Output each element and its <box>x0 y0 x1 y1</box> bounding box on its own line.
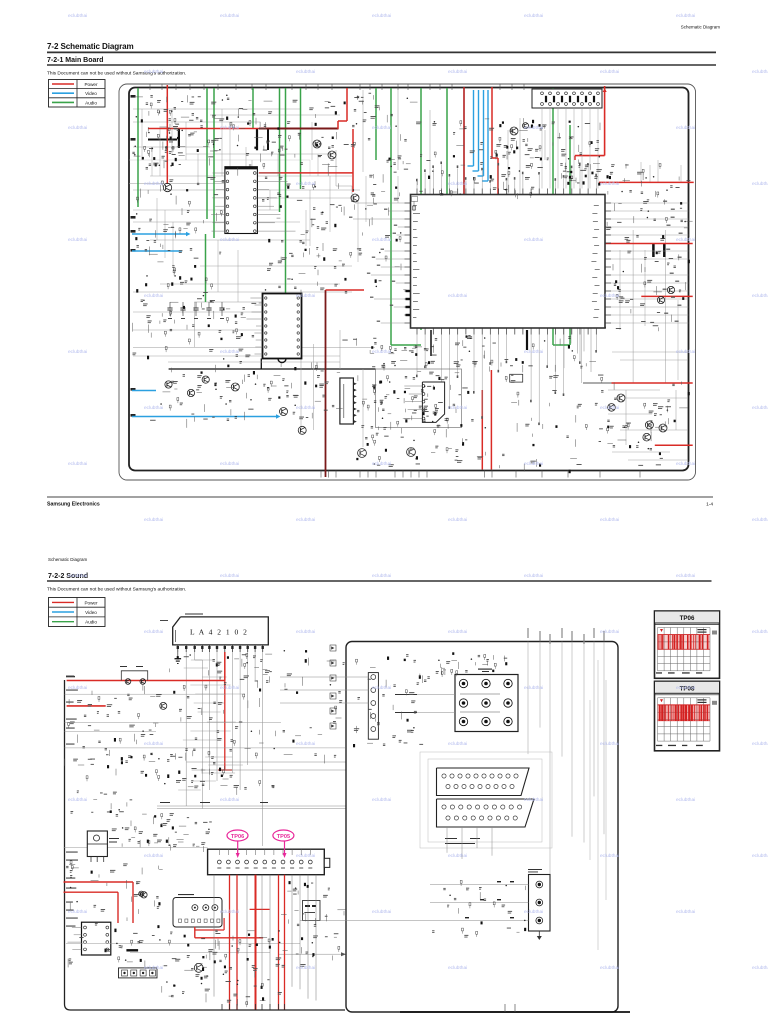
svg-text:eclubthai: eclubthai <box>372 237 391 243</box>
wire into CN01 from left <box>64 846 208 848</box>
svg-text:eclubthai: eclubthai <box>296 181 315 187</box>
audio wire green V11 <box>420 88 422 330</box>
svg-text:Video: Video <box>85 91 97 96</box>
transistor Q107 <box>165 381 172 388</box>
power bus red horizontal <box>148 128 260 130</box>
transistor Q101 <box>163 183 171 191</box>
transistor Q109 <box>202 376 209 383</box>
svg-text:eclubthai: eclubthai <box>600 741 619 747</box>
svg-text:eclubthai: eclubthai <box>220 237 239 243</box>
svg-text:Samsung Electronics: Samsung Electronics <box>47 502 100 508</box>
svg-text:eclubthai: eclubthai <box>752 741 768 747</box>
border pin ticks top edge <box>150 85 524 91</box>
svg-text:eclubthai: eclubthai <box>68 797 87 803</box>
svg-text:eclubthai: eclubthai <box>144 965 163 971</box>
routing loop rect inner <box>428 759 542 842</box>
cluster below LA42102 <box>170 654 273 708</box>
3x3 transformer T601 grid <box>455 675 518 732</box>
IC IC401 vertical DIP <box>263 294 302 359</box>
cluster right of LA wires <box>283 650 345 763</box>
component cluster left lower <box>133 299 263 372</box>
thick black stub V x431 below IC <box>430 330 432 356</box>
svg-text:eclubthai: eclubthai <box>676 461 695 467</box>
gray wire rows left half <box>133 109 360 362</box>
svg-text:eclubthai: eclubthai <box>524 349 543 355</box>
component cluster top-left resistors capacitors <box>132 95 208 169</box>
gray wire rows right half <box>608 160 688 460</box>
svg-text:eclubthai: eclubthai <box>600 853 619 859</box>
TP05 arrow <box>284 841 286 854</box>
wires from left into strip <box>280 676 368 678</box>
routing loop rect outer <box>420 752 552 848</box>
svg-text:eclubthai: eclubthai <box>144 405 163 411</box>
D-sub connector CN302 <box>437 799 535 827</box>
gray wire V x194 <box>193 302 195 347</box>
transistor Q111 <box>280 408 288 416</box>
audio amp block outline <box>376 369 462 428</box>
svg-text:eclubthai: eclubthai <box>752 853 768 859</box>
relay RY01 box <box>173 898 222 928</box>
LA42102 pin wires down <box>185 652 187 806</box>
component marks on jack wires <box>497 881 501 882</box>
svg-text:eclubthai: eclubthai <box>676 685 695 691</box>
left border wire y694 <box>65 693 226 695</box>
component cluster amp block area <box>356 372 469 467</box>
svg-text:7-2 Schematic Diagram: 7-2 Schematic Diagram <box>47 42 134 51</box>
svg-text:Video: Video <box>85 610 97 615</box>
red power wire from LA pin 7 <box>224 652 226 681</box>
svg-text:eclubthai: eclubthai <box>448 405 467 411</box>
svg-text:eclubthai: eclubthai <box>524 125 543 131</box>
cluster above CN01 <box>112 813 212 852</box>
TP08 top-left trigger mark <box>660 699 663 702</box>
power wire red top right loop <box>604 86 606 156</box>
component cluster below IC201 left <box>342 335 472 370</box>
audio wire green H1 <box>391 344 421 346</box>
svg-text:eclubthai: eclubthai <box>68 349 87 355</box>
left border wire y731 <box>65 730 157 732</box>
component cluster center-left <box>262 177 347 293</box>
IC02 rotated side label <box>174 630 177 642</box>
svg-text:eclubthai: eclubthai <box>600 181 619 187</box>
red verticals to bottom border <box>229 875 231 1010</box>
svg-text:Audio: Audio <box>85 620 97 625</box>
wire labels left of T601 <box>395 694 417 695</box>
TP08 readout labels <box>698 699 707 700</box>
component cluster below IC201 right <box>471 337 603 473</box>
TP06 waveform red <box>658 635 711 650</box>
volume control bracket <box>121 671 147 681</box>
svg-text:This Document can not be used: This Document can not be used without Sa… <box>47 587 186 593</box>
cluster mid right p2 <box>281 881 346 967</box>
svg-text:eclubthai: eclubthai <box>372 349 391 355</box>
gray verticals left-bottom area <box>300 344 302 430</box>
svg-text:eclubthai: eclubthai <box>296 853 315 859</box>
svg-text:eclubthai: eclubthai <box>600 517 619 523</box>
IC201 bold left pin marks <box>406 290 411 292</box>
svg-text:eclubthai: eclubthai <box>296 69 315 75</box>
transistor Q04 vol- <box>140 679 146 685</box>
red feeds to relay <box>195 937 263 939</box>
left border labels <box>66 676 78 927</box>
audio wire green V6 <box>279 88 281 212</box>
red pin wire extension to y770 <box>224 681 226 771</box>
sound board left border <box>65 680 346 1010</box>
svg-text:eclubthai: eclubthai <box>676 125 695 131</box>
svg-text:eclubthai: eclubthai <box>524 909 543 915</box>
T601 label above <box>478 669 492 670</box>
audio wire green V10 <box>390 88 392 345</box>
svg-text:eclubthai: eclubthai <box>448 853 467 859</box>
red wire pair from left border <box>64 881 134 883</box>
svg-text:eclubthai: eclubthai <box>524 573 543 579</box>
power wire red H y290 <box>326 289 365 291</box>
svg-text:eclubthai: eclubthai <box>144 629 163 635</box>
svg-text:eclubthai: eclubthai <box>600 629 619 635</box>
jack label above <box>528 869 542 870</box>
svg-text:eclubthai: eclubthai <box>372 797 391 803</box>
wires to right box <box>187 761 346 763</box>
svg-text:eclubthai: eclubthai <box>372 573 391 579</box>
LA42102 pins <box>177 645 264 652</box>
TP06 callout ellipse <box>227 830 248 841</box>
component cluster center bottom <box>263 362 342 414</box>
svg-text:eclubthai: eclubthai <box>676 13 695 19</box>
svg-text:eclubthai: eclubthai <box>68 461 87 467</box>
relay pin squares <box>179 919 220 922</box>
IC201 left pin ticks and wires <box>349 201 411 323</box>
heatsink regulator IC01 <box>87 831 107 857</box>
vertical wires from D-sub down <box>446 827 448 853</box>
transistor Q105 <box>510 127 518 135</box>
left border wire y722 <box>65 722 282 724</box>
video wire cyan bottom H4 <box>132 416 276 418</box>
svg-text:eclubthai: eclubthai <box>448 965 467 971</box>
legend box <box>49 80 106 108</box>
svg-text:eclubthai: eclubthai <box>600 965 619 971</box>
transistor Q106 <box>523 123 529 129</box>
svg-text:This Document can not be used: This Document can not be used without Sa… <box>47 71 186 77</box>
transistor Q06 <box>141 892 147 898</box>
main board schematic outer border <box>119 84 696 480</box>
transistor Q104 <box>351 194 359 202</box>
audio wire green V12 <box>446 88 448 270</box>
power wire red V x353 <box>352 129 354 192</box>
svg-text:eclubthai: eclubthai <box>144 517 163 523</box>
svg-text:eclubthai: eclubthai <box>372 461 391 467</box>
svg-text:7-2-1 Main Board: 7-2-1 Main Board <box>47 57 103 64</box>
legend2 Audio green line <box>52 621 74 623</box>
svg-text:eclubthai: eclubthai <box>600 405 619 411</box>
audio wire green V4 <box>205 234 207 302</box>
svg-text:eclubthai: eclubthai <box>676 797 695 803</box>
svg-text:eclubthai: eclubthai <box>144 853 163 859</box>
svg-text:eclubthai: eclubthai <box>752 517 768 523</box>
component cluster amp area dense <box>358 375 468 437</box>
svg-text:TP06: TP06 <box>231 834 244 840</box>
thick black stub V x178 <box>178 129 180 149</box>
svg-text:1-4: 1-4 <box>706 502 713 508</box>
IC IC101 vertical DIP <box>225 167 258 234</box>
transistor Q112 <box>298 426 306 434</box>
transistor Q08 <box>139 891 144 896</box>
svg-text:eclubthai: eclubthai <box>68 125 87 131</box>
connector strip in right box <box>368 673 378 740</box>
oscilloscope capture box TP08 <box>655 681 720 751</box>
svg-text:eclubthai: eclubthai <box>220 685 239 691</box>
page 1 footer rule <box>47 496 713 498</box>
svg-text:eclubthai: eclubthai <box>220 349 239 355</box>
IC201 internal pin name dashes <box>413 205 600 318</box>
left border wire y748 <box>65 747 346 749</box>
TP06 arrow <box>237 841 239 854</box>
audio wire green H2 <box>553 344 570 346</box>
video wire cyan group top-center <box>473 90 475 166</box>
main IC IC201 micom/jungle <box>411 195 606 329</box>
red V x118 <box>117 892 119 923</box>
power wire red H y383 <box>612 382 693 384</box>
cluster left strip p2 <box>65 754 132 813</box>
power wire red jog at top <box>346 88 348 121</box>
TP08 waveform red <box>658 705 711 721</box>
transistor Q116 <box>608 404 616 412</box>
svg-text:eclubthai: eclubthai <box>68 237 87 243</box>
component cluster top center <box>351 93 418 183</box>
IC IC02 LA42102 sound amp <box>173 617 269 645</box>
wires into jack <box>430 884 529 886</box>
LA42102 ground cap cluster <box>177 652 179 658</box>
transistor Q114 <box>407 448 416 457</box>
title rule <box>47 51 716 53</box>
transistor Q113 <box>358 449 367 458</box>
svg-text:eclubthai: eclubthai <box>524 13 543 19</box>
svg-text:eclubthai: eclubthai <box>296 965 315 971</box>
svg-text:eclubthai: eclubthai <box>676 237 695 243</box>
red power wire y706 <box>67 705 106 707</box>
svg-text:eclubthai: eclubthai <box>524 797 543 803</box>
audio wire green V3 <box>213 88 215 238</box>
power wire maroon V x325 to bottom border <box>325 290 327 477</box>
gray stair wires left of IC201 <box>336 150 352 194</box>
svg-text:eclubthai: eclubthai <box>144 69 163 75</box>
long verticals right side of right box <box>597 660 599 950</box>
svg-text:eclubthai: eclubthai <box>68 909 87 915</box>
red segment right <box>250 908 270 910</box>
power wire red H y243 <box>605 243 693 245</box>
audio wire green V1 <box>137 88 139 207</box>
thick black stub V x268 <box>267 129 269 151</box>
svg-text:eclubthai: eclubthai <box>676 573 695 579</box>
black verticals from connector <box>213 875 215 997</box>
svg-text:Audio: Audio <box>85 100 97 105</box>
black bus H y369 <box>169 368 376 370</box>
transistor Q118 <box>659 424 667 432</box>
bus H y327 under IC201 <box>560 327 606 329</box>
IC201 right pin ticks and wires to border <box>605 201 688 323</box>
cluster resistor row p2 mid <box>141 753 233 787</box>
transistor Q103 <box>328 151 336 159</box>
label 10.8V at left top <box>66 676 75 677</box>
svg-text:eclubthai: eclubthai <box>752 405 768 411</box>
right box bottom thick extension <box>400 1011 630 1013</box>
cluster left top area p2 <box>68 684 162 765</box>
component cluster dense above IC201 right edge <box>562 164 614 185</box>
component cluster right mid <box>606 164 692 243</box>
transistor Q120 <box>657 296 664 303</box>
sound board right box border <box>346 642 618 1013</box>
legend2 Video blue line <box>52 611 74 613</box>
svg-text:eclubthai: eclubthai <box>68 685 87 691</box>
svg-text:eclubthai: eclubthai <box>448 181 467 187</box>
thick black stub V x527 below IC <box>526 330 528 350</box>
left border connector stubs <box>131 95 136 417</box>
legend Audio green line <box>52 101 74 103</box>
svg-text:Power: Power <box>84 600 97 605</box>
svg-text:eclubthai: eclubthai <box>752 181 768 187</box>
transistor Q115 <box>617 394 625 402</box>
svg-text:Schematic Diagram: Schematic Diagram <box>681 25 721 30</box>
IC201 small internal component <box>412 197 418 202</box>
TP06 top-left trigger mark <box>660 629 663 632</box>
video wire cyan left H1 <box>132 233 186 235</box>
svg-text:eclubthai: eclubthai <box>372 125 391 131</box>
audio wire green V8 <box>300 88 302 189</box>
cluster output stage p2 <box>162 930 282 1007</box>
TP08 graticule <box>658 698 711 741</box>
svg-text:eclubthai: eclubthai <box>68 13 87 19</box>
legend Power red line <box>52 83 74 85</box>
power wire red H y296 <box>641 295 692 297</box>
page 2 legend box <box>49 598 106 627</box>
CN01 right tab <box>324 858 330 867</box>
power wire red V at Q101 <box>166 85 168 184</box>
transistor Q07 output <box>194 964 203 973</box>
power wire red V x491 bottom <box>490 370 492 470</box>
transistor Q117 <box>645 421 653 429</box>
svg-text:Power: Power <box>84 82 97 87</box>
thick black bar y950 <box>126 949 138 951</box>
wire labels y806 <box>160 802 170 803</box>
op-amp IC402 block <box>422 382 444 422</box>
svg-text:eclubthai: eclubthai <box>448 741 467 747</box>
connector CN201 pin header top <box>532 89 602 108</box>
audio wire green V7 <box>285 88 287 315</box>
cluster power area p2 <box>66 861 163 969</box>
long gray wire H y183 <box>129 183 224 185</box>
component cluster top mid-left <box>208 95 349 176</box>
svg-text:eclubthai: eclubthai <box>600 293 619 299</box>
cluster near jack <box>432 880 526 937</box>
audio wire green V13 <box>552 88 554 345</box>
transistor Q119 <box>643 433 651 441</box>
bus drop x261 to IC401 <box>260 359 262 370</box>
4-pin connector CN02 <box>119 968 158 978</box>
cluster right box left part <box>353 655 430 748</box>
power wire red H y182 to border <box>599 181 694 183</box>
subtitle rule <box>47 64 716 66</box>
svg-text:L A 4 2 1 0 2: L A 4 2 1 0 2 <box>190 628 248 637</box>
svg-text:eclubthai: eclubthai <box>448 293 467 299</box>
LA ladder rungs <box>178 660 245 790</box>
transistor Q05 <box>160 702 167 709</box>
TP06 readout labels <box>698 629 707 630</box>
TP05 callout ellipse <box>273 830 294 841</box>
svg-text:eclubthai: eclubthai <box>220 125 239 131</box>
red power bus y680 <box>67 680 225 682</box>
svg-text:eclubthai: eclubthai <box>296 517 315 523</box>
component cluster bottom right <box>607 382 690 466</box>
svg-text:eclubthai: eclubthai <box>220 909 239 915</box>
IC02 label above <box>185 614 203 615</box>
svg-text:eclubthai: eclubthai <box>448 69 467 75</box>
svg-text:eclubthai: eclubthai <box>220 797 239 803</box>
svg-text:eclubthai: eclubthai <box>144 293 163 299</box>
svg-text:TP06: TP06 <box>680 615 695 622</box>
LA pin wire elbow <box>195 660 203 809</box>
audio jack J01 <box>529 875 551 932</box>
svg-text:eclubthai: eclubthai <box>296 405 315 411</box>
connector CN401 vertical <box>340 378 354 424</box>
opto IC03 box <box>303 901 321 921</box>
component cluster above IC201 right <box>496 121 600 171</box>
gray wire verticals left half <box>142 109 398 302</box>
legend2 Power red line <box>52 601 74 603</box>
power bus maroon segment <box>259 128 339 130</box>
bold component bars under red bus y243 <box>652 244 655 257</box>
component cluster right of IC201 <box>613 251 690 332</box>
long gray verticals center <box>362 90 364 172</box>
component cluster bottom-left transistors area <box>150 371 324 428</box>
page 2 title rule <box>47 580 712 582</box>
transistor Q102 <box>313 140 321 148</box>
svg-text:eclubthai: eclubthai <box>752 629 768 635</box>
wires top of right box <box>527 628 604 905</box>
wire into red H y383 <box>583 382 612 384</box>
svg-text:eclubthai: eclubthai <box>524 237 543 243</box>
power wire red H y173 <box>259 172 353 174</box>
svg-text:eclubthai: eclubthai <box>600 69 619 75</box>
svg-text:eclubthai: eclubthai <box>144 741 163 747</box>
red V x133 <box>132 882 134 923</box>
cluster top of right box <box>436 652 508 677</box>
video wire cyan left H2 <box>132 250 182 252</box>
oscilloscope capture box TP06 <box>655 611 720 678</box>
svg-text:eclubthai: eclubthai <box>296 741 315 747</box>
D-sub connector CN301 <box>437 768 530 796</box>
audio wire green V5 <box>252 88 254 128</box>
legend Video blue line <box>52 92 74 94</box>
TP06 graticule <box>658 628 711 671</box>
IC201 bottom pin ticks and wires <box>416 328 597 425</box>
main board schematic inner border <box>129 88 689 471</box>
thick black stub V x257 <box>256 129 258 151</box>
component cluster resistor column <box>152 132 186 168</box>
svg-text:eclubthai: eclubthai <box>220 461 239 467</box>
cluster mid left p2 <box>176 700 276 795</box>
power wire red V x492 with jog <box>491 87 493 158</box>
jack ground arrow <box>538 931 540 936</box>
DIP IC02 8-pin <box>82 922 111 955</box>
svg-text:eclubthai: eclubthai <box>296 293 315 299</box>
component cluster above IC201 left <box>416 118 534 199</box>
svg-text:eclubthai: eclubthai <box>144 181 163 187</box>
svg-text:eclubthai: eclubthai <box>676 909 695 915</box>
bus drops below IC201 <box>564 328 591 373</box>
capacitor row C301-C305 <box>167 302 224 319</box>
power wire red H y445 <box>655 444 693 446</box>
gray wire H y302 <box>194 301 270 303</box>
audio wire green V2 <box>206 88 208 219</box>
